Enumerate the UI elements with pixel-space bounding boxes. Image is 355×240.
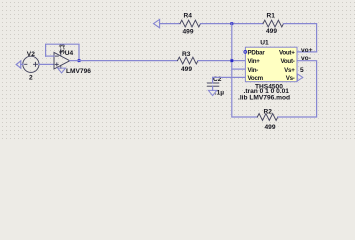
resistor R1 [263,20,283,27]
svg-text:U1: U1 [260,39,269,46]
svg-text:vo+: vo+ [301,47,313,54]
svg-text:499: 499 [183,29,194,36]
wire (junction vertical to Vin-) [232,68,246,70]
resistor R2 [257,114,277,121]
wire (R2 right, up to Vout- row) [278,61,317,117]
svg-text:Vin-: Vin- [248,67,259,74]
svg-text:Vs+: Vs+ [284,67,295,74]
wire (V2 to op-amp +) [39,63,54,65]
wire (long vertical from top junction down to R2 row) [232,24,257,117]
svg-text:499: 499 [266,28,277,35]
svg-text:R1: R1 [267,13,276,20]
node junction (op-amp output) [78,59,81,62]
svg-text:R3: R3 [182,51,191,58]
svg-text:5: 5 [300,67,304,74]
svg-text:.lib LMV796.mod: .lib LMV796.mod [238,94,290,101]
resistor R4 [180,20,200,27]
capacitor C2 [207,83,218,86]
svg-text:PDbar: PDbar [248,50,266,57]
ground flag (left of V2, points left) [16,61,21,68]
wire (R3 to box Vin+) [198,60,245,62]
wire [284,24,317,52]
svg-text:Vocm: Vocm [248,75,264,82]
resistor R3 [178,57,198,64]
ground (below op-amp V-) [58,68,66,73]
svg-text:Vout-: Vout- [280,58,294,65]
svg-text:V2: V2 [27,51,35,58]
wire [201,23,264,25]
wire (op-amp output to R3) [70,60,178,62]
svg-text:Vin+: Vin+ [248,58,261,65]
voltage source V2 [23,56,39,72]
wire [21,63,23,65]
wire (vo+ from box Vout+) [297,51,317,53]
ground (below C2) [208,90,216,95]
ground (right of Vs-, points right) [297,74,302,81]
svg-text:3.3: 3.3 [58,44,67,54]
wire (C2 to box Vocm) [213,76,246,78]
op-amp U1 (THS4500 box) [245,47,297,81]
ground flag (top-left, rotated, points left) [154,19,160,27]
svg-text:Vout+: Vout+ [279,50,295,57]
svg-text:LMV796: LMV796 [66,68,91,75]
wire (feedback loop) [46,55,54,57]
node junction (top) [230,22,233,25]
wire [160,23,180,25]
svg-text:R4: R4 [184,13,193,20]
svg-text:vo-: vo- [301,55,311,62]
svg-text:499: 499 [181,66,192,73]
svg-text:2: 2 [29,74,33,81]
node junction (mid) [230,59,233,62]
svg-text:Vs-: Vs- [286,75,295,82]
op-amp U4 [54,49,70,69]
svg-text:499: 499 [265,124,276,131]
svg-text:R2: R2 [264,108,273,115]
